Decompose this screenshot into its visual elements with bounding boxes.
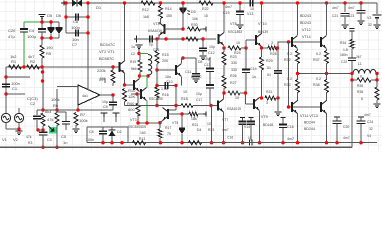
node [258,141,261,144]
svg-text:4m7: 4m7 [225,5,232,9]
svg-text:V2: V2 [13,137,19,142]
node [135,92,138,95]
transistor VT4 [164,24,166,34]
node [36,128,39,131]
svg-text:R15: R15 [162,53,169,57]
wire base VT10 [246,39,256,41]
svg-text:R38: R38 [313,83,320,87]
resistor R23 [223,48,225,52]
resistor R34 [350,29,355,31]
node [287,40,290,43]
capacitor C3 [42,130,44,132]
svg-text:C23: C23 [348,14,354,18]
resistor R21b [186,37,198,41]
resistor R1 [9,65,22,69]
svg-text:47k: 47k [26,135,32,139]
svg-text:10: 10 [236,41,240,45]
node [4,75,7,78]
svg-text:VT10: VT10 [258,22,267,26]
wire R21 row [168,113,189,115]
transistor VT2 [133,80,135,90]
svg-text:R21: R21 [192,123,198,127]
svg-text:R36: R36 [357,90,363,94]
wire rail [6,66,120,68]
capacitor C22 [351,49,353,59]
svg-text:R31: R31 [266,90,272,94]
svg-text:R6: R6 [53,103,59,108]
svg-text:R26: R26 [230,74,237,78]
svg-text:V13: V13 [247,12,253,16]
node [276,96,279,99]
svg-text:R18: R18 [181,97,188,101]
capacitor C7 [66,32,88,34]
transistor VT9 [245,93,247,104]
transistor VT14 [320,37,322,47]
capacitor C10 [157,85,176,87]
wire opamp power [87,78,89,90]
wire emitter VT1 [124,73,126,86]
svg-text:C5: C5 [61,134,67,139]
node [296,1,299,4]
svg-text:C18: C18 [287,125,294,129]
svg-text:L2: L2 [131,52,135,56]
wire collector VT1 [124,3,126,62]
node [181,27,184,30]
ground [193,79,200,83]
wire [182,3,184,29]
node [40,20,43,23]
wire ground rail [0,146,352,148]
wire [240,92,246,94]
svg-text:4m7: 4m7 [364,113,371,117]
wire [65,3,67,33]
svg-text:10p: 10p [209,45,215,49]
node [244,91,247,94]
node [159,141,162,144]
resistor R33 [297,74,299,81]
wire gray [202,39,204,48]
wire green [24,21,43,23]
wire [160,121,163,124]
svg-text:BD139: BD139 [258,30,268,34]
capacitor C9 [109,102,117,105]
transistor VT12 [291,37,293,47]
svg-text:R29: R29 [266,59,273,63]
svg-text:R7: R7 [80,112,86,117]
wire column 278 [277,42,279,70]
svg-text:BC547C: BC547C [100,42,115,47]
svg-text:4m7: 4m7 [332,6,339,10]
resistor R27 [228,91,240,95]
source V1 [1,113,10,122]
node [222,46,225,49]
svg-text:3: 3 [266,101,268,105]
node [41,108,44,111]
wire [156,98,158,106]
svg-text:1n: 1n [63,140,67,145]
transistor VT2b [140,89,142,99]
svg-text:C17: C17 [196,98,202,102]
node [138,74,141,77]
resistor R17 [159,123,161,129]
svg-text:C2: C2 [30,101,36,106]
wire base row top [278,41,322,43]
node [155,68,158,71]
svg-text:V4: V4 [367,134,371,138]
svg-text:C14: C14 [250,67,257,71]
wire green [146,76,148,88]
svg-text:1.8k: 1.8k [161,87,168,91]
wire [223,112,225,143]
transistor VT6 [175,65,177,75]
resistor R7 [74,113,78,126]
resistor R32 [296,51,300,64]
capacitor V14 [249,116,254,118]
svg-text:3: 3 [271,41,273,45]
svg-text:C8: C8 [89,130,94,134]
svg-text:R27: R27 [230,81,237,85]
svg-text:R16: R16 [162,93,169,97]
wire [87,126,128,128]
resistor R21 [189,112,198,116]
capacitor C21 [344,3,346,12]
svg-text:200: 200 [162,59,168,63]
svg-text:10µ: 10µ [196,92,202,96]
ground [136,45,143,49]
wire [259,96,261,99]
wire [56,110,58,112]
wire green [140,75,149,77]
svg-text:180n: 180n [340,53,348,57]
terminal [203,111,206,116]
svg-text:1Bk: 1Bk [191,117,197,121]
resistor R3 [41,113,45,126]
wire [156,70,158,86]
wire [288,42,290,107]
wire [156,64,158,70]
wire [175,86,177,106]
node [41,70,44,73]
svg-text:C10: C10 [166,80,173,84]
resistor R29 [261,48,263,57]
svg-text:R5: R5 [46,51,52,56]
svg-text:D3: D3 [191,10,196,14]
wire [57,86,78,88]
wire [239,15,241,25]
svg-text:75: 75 [167,132,171,136]
svg-text:KSA1015: KSA1015 [148,29,162,33]
svg-text:KSC1853: KSC1853 [228,30,242,34]
svg-text:R34: R34 [340,41,346,45]
node [350,78,353,81]
svg-text:VT3: VT3 [130,118,137,122]
svg-text:8: 8 [361,97,363,101]
resistor R14 [160,3,162,6]
svg-text:BD244: BD244 [304,127,315,131]
node [55,108,58,111]
node [201,37,204,40]
resistor R30 [188,27,201,31]
svg-text:10k: 10k [192,17,198,21]
node [64,15,67,18]
capacitor C15 [239,3,241,12]
svg-text:0.2: 0.2 [316,52,321,56]
node [4,92,7,95]
resistor R4 [55,113,59,126]
svg-text:0.2: 0.2 [287,52,292,56]
capacitor C23 [360,3,362,10]
svg-text:C16: C16 [227,136,233,140]
capacitor series on rail [250,140,252,146]
svg-text:2k7: 2k7 [356,55,362,59]
svg-text:V3: V3 [367,16,371,20]
svg-text:BD243: BD243 [300,21,311,25]
resistor R10 [123,89,127,102]
svg-text:47k: 47k [47,117,53,122]
resistor R15 [155,51,159,64]
node [17,127,20,130]
wire [193,105,211,107]
svg-text:10: 10 [204,14,208,18]
node [343,1,346,4]
node [22,65,25,68]
wire [131,93,137,95]
node [164,37,167,40]
svg-text:BD244: BD244 [304,121,315,125]
svg-text:C1: C1 [12,86,18,91]
capacitor C5 [65,112,67,121]
svg-text:VT9: VT9 [261,115,268,119]
resistor R22 [199,1,213,5]
node [181,1,184,4]
resistor R23b [189,141,202,145]
node [287,105,290,108]
node [260,46,263,49]
resistor R2 [27,65,40,69]
svg-text:C20: C20 [8,28,16,33]
wire [112,105,114,110]
resistor R37 [325,51,329,64]
inductor L2 [148,55,152,76]
wire [259,111,261,143]
capacitor C4 [41,22,43,29]
node [296,72,299,75]
battery V3 [376,3,378,14]
svg-text:R32: R32 [284,58,291,62]
svg-text:BD243: BD243 [300,14,311,18]
wire [43,109,113,111]
node [210,141,213,144]
resistor R18 [181,104,193,108]
wire base row bottom [289,106,322,108]
node [244,46,247,49]
svg-text:0.2: 0.2 [287,77,292,81]
wire green [139,53,148,55]
diode D1 [72,0,77,7]
node top rail [64,1,67,4]
node [155,104,158,107]
transistor VT1 [119,62,121,72]
source V2 [18,108,20,113]
svg-text:VT5: VT5 [172,121,178,125]
node [241,141,244,144]
svg-text:4m7: 4m7 [287,137,294,141]
svg-text:KSC1845: KSC1845 [149,97,163,101]
svg-text:100µ: 100µ [27,34,37,39]
svg-text:150: 150 [166,14,172,18]
transistor VT5b KSA1015 [211,105,218,107]
svg-text:L1: L1 [358,62,362,66]
wire [201,28,205,30]
svg-text:10: 10 [207,122,211,126]
node [76,108,79,111]
ground [275,112,282,116]
svg-text:VT11 VT13: VT11 VT13 [300,114,318,118]
node [181,56,184,59]
node [222,91,225,94]
terminal [101,113,108,117]
diode D3 LED [182,3,184,8]
svg-text:4m7: 4m7 [348,6,355,10]
capacitor C13 lower [206,84,214,86]
capacitor C6 [66,16,88,18]
svg-text:1.8: 1.8 [343,48,348,52]
svg-text:R22: R22 [202,7,209,11]
wire stub D9 [104,78,106,83]
wire [139,76,141,78]
inductor L1 [353,69,376,73]
svg-text:D4: D4 [197,128,201,132]
svg-text:C3: C3 [47,138,52,142]
resistor R13 [133,141,146,145]
svg-text:C12: C12 [208,51,215,55]
svg-text:R3: R3 [28,141,32,145]
svg-text:R19: R19 [130,60,136,64]
svg-text:330: 330 [231,61,237,65]
svg-text:10: 10 [235,96,239,100]
capacitor C12 [199,48,207,51]
wire [351,74,353,81]
resistor R36 [352,79,357,81]
diode D5 [42,21,59,23]
capacitor C16 [240,116,245,118]
wire mid rail [298,73,353,75]
capacitor C18 [281,117,286,119]
wire [209,88,211,106]
svg-text:C11: C11 [185,70,191,74]
resistor R19 [139,54,141,61]
node [159,1,162,4]
wire bias row [124,102,126,106]
resistor R24 [228,46,241,50]
svg-text:BC557C: BC557C [99,56,114,61]
wire [241,47,246,49]
node [238,1,241,4]
capacitor C2 [33,116,41,119]
svg-text:D6: D6 [56,13,62,18]
svg-text:VT12: VT12 [302,28,311,32]
svg-text:100k: 100k [79,118,88,123]
wire [42,67,44,110]
svg-text:R14: R14 [165,7,172,11]
wire [202,51,204,55]
svg-text:R2: R2 [30,59,36,64]
wire collector VT8 [223,3,225,33]
wire [209,72,211,84]
diode D2 [111,127,113,130]
node [123,1,126,4]
node rail B dots [101,141,104,144]
svg-text:10: 10 [250,7,254,11]
op-amp DA1 [78,85,100,105]
svg-text:190: 190 [46,45,53,50]
wire [156,39,158,50]
svg-text:R9: R9 [100,76,106,81]
svg-text:160: 160 [140,131,146,135]
ground [39,15,46,19]
svg-text:C9: C9 [103,105,108,109]
transistor VT10 [261,3,263,34]
svg-text:R23: R23 [230,55,237,59]
ground [358,21,365,25]
svg-text:R12: R12 [142,8,149,12]
svg-text:C4: C4 [29,28,35,33]
node [350,72,353,75]
svg-text:4m7: 4m7 [343,136,350,140]
terminal J1 [61,1,64,6]
svg-text:R23: R23 [208,128,214,132]
svg-text:C15: C15 [223,11,230,15]
wire [138,49,140,53]
svg-text:VT14: VT14 [302,35,311,39]
svg-text:330: 330 [231,68,237,72]
terminal [113,113,120,117]
wire base VT4 [165,28,184,30]
svg-text:51: 51 [267,66,271,70]
svg-text:51: 51 [267,73,271,77]
ground [237,25,244,29]
svg-text:R30: R30 [191,23,198,27]
svg-text:C13: C13 [204,63,210,67]
svg-text:D1: D1 [96,5,102,10]
svg-text:KSA1015: KSA1015 [227,107,241,111]
wire emitter [223,46,225,48]
svg-text:C21: C21 [332,14,338,18]
node [276,46,279,49]
svg-text:4m7: 4m7 [222,128,229,132]
svg-text:C7: C7 [72,42,78,47]
capacitor on rail [250,0,253,7]
svg-text:D5: D5 [47,13,53,18]
svg-text:R37: R37 [313,58,320,62]
wire [160,18,162,23]
svg-text:BD148: BD148 [263,123,273,127]
node [180,112,183,115]
svg-text:47µ: 47µ [8,34,15,39]
resistor R35 [376,80,378,87]
transistor VT13 [320,102,322,112]
node [260,96,263,99]
svg-text:R10: R10 [128,88,136,93]
wire [5,67,7,113]
resistor R26 [222,76,226,89]
wire green [146,101,148,124]
transistor VT11 [291,102,293,112]
diode D4 [181,114,183,128]
svg-text:C20: C20 [343,125,349,129]
svg-text:10: 10 [248,136,252,140]
svg-text:5k6: 5k6 [131,67,137,71]
